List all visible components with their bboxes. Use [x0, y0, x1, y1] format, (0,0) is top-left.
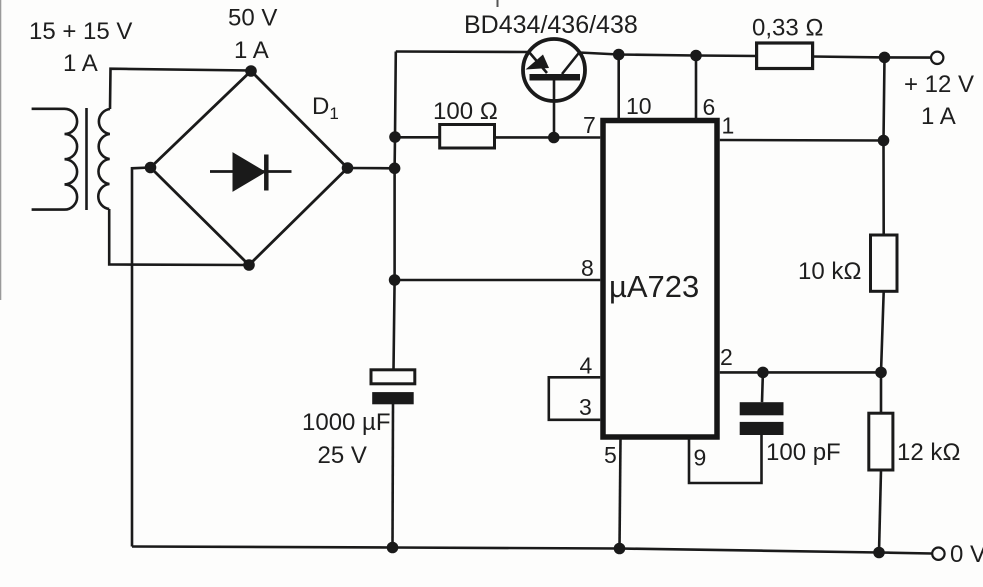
svg-text:100 pF: 100 pF — [766, 439, 841, 466]
node pin10-rail — [613, 49, 625, 61]
svg-text:12 kΩ: 12 kΩ — [897, 439, 961, 466]
node bridge left — [145, 162, 157, 174]
wire bottom rail — [132, 547, 932, 554]
capacitor 100pF — [740, 372, 784, 435]
node bridge bottom — [243, 259, 255, 271]
wire bridge right corner to left bus — [348, 167, 395, 170]
svg-text:5: 5 — [604, 442, 617, 468]
svg-text:BD434/436/438: BD434/436/438 — [464, 11, 638, 39]
scan tick top — [497, 0, 499, 7]
wire pin 8 — [395, 279, 601, 282]
node base junction — [548, 132, 560, 144]
svg-text:7: 7 — [583, 112, 596, 138]
wire top rail right of transistor — [579, 53, 758, 57]
wire right bus — [884, 57, 885, 235]
node bus-pin8 junction — [389, 274, 401, 286]
resistor 100 ohm — [440, 125, 495, 149]
wire bridge left corner down to bottom rail — [132, 168, 151, 547]
diode inside bridge — [210, 153, 292, 191]
wire top rail left segment — [396, 50, 529, 53]
wire pin 2 — [720, 371, 881, 374]
svg-text:2: 2 — [720, 344, 733, 370]
svg-text:1 A: 1 A — [234, 37, 269, 64]
resistor 12k — [869, 413, 893, 470]
wire left bus below capacitor — [391, 404, 394, 548]
svg-text:1 A: 1 A — [921, 103, 956, 130]
wire secondary bottom to bridge — [109, 209, 249, 265]
svg-text:0,33 Ω: 0,33 Ω — [752, 15, 824, 42]
wire top rail after 0.33 ohm — [812, 57, 931, 58]
node pin5-rail junction — [614, 543, 626, 555]
transformer — [32, 108, 110, 210]
wire pin 5 stub — [620, 438, 621, 549]
svg-text:0 V: 0 V — [950, 541, 983, 568]
svg-text:100 Ω: 100 Ω — [433, 98, 498, 125]
node cap-rail junction — [387, 542, 399, 554]
wire secondary top to bridge — [110, 69, 251, 109]
IC U1 uA723 — [603, 121, 717, 438]
resistor 10k — [871, 235, 898, 291]
wire pin 9 to 100pF — [689, 435, 762, 483]
wire pin 6 stub — [695, 56, 698, 121]
svg-text:1 A: 1 A — [63, 50, 98, 77]
svg-text:10 kΩ: 10 kΩ — [798, 258, 862, 285]
node bus-bridge junction — [389, 163, 401, 175]
svg-text:3: 3 — [579, 394, 592, 420]
transistor Q1 BD434/436/438 — [523, 39, 585, 138]
node pin1 junction — [878, 135, 890, 147]
scan edge artifact line — [0, 0, 2, 300]
node pin6-rail — [690, 50, 702, 62]
resistor 0.33 ohm — [757, 43, 813, 69]
svg-text:4: 4 — [580, 353, 593, 379]
node pin2-right junction — [875, 367, 887, 379]
svg-text:6: 6 — [703, 94, 716, 120]
node bridge right — [342, 162, 354, 174]
wire 100ohm to pin7 — [495, 136, 601, 139]
svg-text:15 + 15 V: 15 + 15 V — [29, 18, 132, 45]
wire 12k to bottom rail — [879, 470, 881, 553]
svg-text:10: 10 — [626, 93, 652, 119]
node rail-right junction — [879, 52, 891, 64]
wire pins 4-3 link — [549, 377, 601, 420]
svg-text:µA723: µA723 — [609, 269, 699, 304]
wire pin 10 stub — [617, 55, 620, 121]
terminal 0V — [932, 548, 944, 560]
wire 10k to pin2 node — [881, 291, 884, 413]
wire 100ohm row — [395, 136, 440, 139]
node pin2-cap junction — [757, 367, 769, 379]
svg-text:9: 9 — [694, 445, 707, 471]
node bridge top — [245, 65, 257, 77]
bridge rectifier D1 — [151, 71, 348, 265]
wire left bus vertical — [394, 52, 396, 371]
svg-text:+ 12 V: + 12 V — [904, 71, 974, 98]
svg-text:1: 1 — [722, 113, 735, 139]
svg-text:25 V: 25 V — [318, 442, 367, 469]
node bus-100ohm junction — [389, 131, 401, 143]
node 12k-rail junction — [873, 547, 885, 559]
svg-text:1000 µF: 1000 µF — [302, 409, 391, 436]
svg-text:8: 8 — [581, 255, 594, 281]
terminal +12V — [931, 52, 943, 64]
svg-text:50 V: 50 V — [228, 5, 277, 32]
wire pin 1 — [720, 139, 884, 142]
capacitor 1000uF — [371, 370, 415, 405]
